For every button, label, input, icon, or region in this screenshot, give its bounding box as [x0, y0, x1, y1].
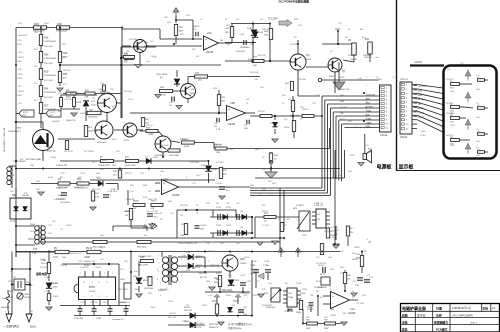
svg-text:R27 462: R27 462 — [216, 162, 224, 164]
svg-text:R18: R18 — [44, 54, 49, 57]
svg-text:R6A 23Ω-7W: R6A 23Ω-7W — [70, 252, 81, 255]
svg-text:LED3: LED3 — [450, 125, 455, 127]
svg-text:D17 4148: D17 4148 — [190, 162, 200, 164]
svg-text:B?D: B?D — [368, 149, 372, 151]
svg-text:RV W: RV W — [86, 247, 93, 250]
svg-text:D50 PB04: D50 PB04 — [144, 288, 154, 290]
svg-text:C79A: C79A — [264, 260, 270, 263]
svg-text:230-7W: 230-7W — [30, 231, 37, 233]
svg-text:R34 100K: R34 100K — [160, 145, 170, 147]
svg-text:1ΩΩ: 1ΩΩ — [294, 19, 298, 21]
svg-text:C43: C43 — [220, 243, 223, 245]
svg-text:1/2W: 1/2W — [17, 44, 22, 46]
svg-text:2: 2 — [176, 283, 177, 285]
svg-text:22ΩΩ: 22ΩΩ — [296, 205, 302, 207]
svg-text:R6A: R6A — [62, 256, 67, 259]
svg-text:LED2: LED2 — [450, 113, 455, 115]
svg-text:200K: 200K — [17, 95, 22, 97]
svg-text:CNR1: CNR1 — [24, 294, 29, 296]
svg-text:VCC: VCC — [460, 63, 465, 65]
svg-text:显示板: 显示板 — [399, 164, 415, 171]
svg-text:RL1 78L05: RL1 78L05 — [328, 227, 339, 229]
svg-text:D19: D19 — [196, 251, 199, 253]
svg-text:VCC: VCC — [338, 23, 343, 25]
svg-text:FR204: FR204 — [194, 267, 201, 269]
svg-text:794-L79Ω%: 794-L79Ω% — [156, 74, 168, 76]
svg-text:1/2W200KΩ: 1/2W200KΩ — [44, 75, 56, 77]
svg-text:原理图编号: 原理图编号 — [434, 320, 448, 324]
svg-text:LED4: LED4 — [450, 145, 455, 147]
svg-text:R42 100K: R42 100K — [290, 115, 300, 117]
svg-text:170Ω-0.7W: 170Ω-0.7W — [56, 165, 68, 167]
svg-text:GND: GND — [366, 126, 371, 128]
svg-text:C42: C42 — [206, 243, 209, 245]
svg-text:JYC-POWER电源电路图: JYC-POWER电源电路图 — [278, 0, 309, 4]
svg-text:C79: C79 — [256, 281, 259, 283]
svg-text:8050: 8050 — [329, 76, 335, 78]
svg-text:D6: D6 — [348, 29, 350, 31]
svg-text:U3A: U3A — [163, 178, 168, 181]
svg-text:R6Ω 4ΩΩ*: R6Ω 4ΩΩ* — [137, 247, 147, 249]
svg-text:~ 230VAC: ~ 230VAC — [3, 325, 20, 329]
svg-text:R7A: R7A — [113, 170, 118, 173]
svg-text:R56 68Ω-VZW: R56 68Ω-VZW — [138, 256, 151, 258]
svg-text:4ΩΩΩ*: 4ΩΩΩ* — [100, 247, 106, 249]
svg-text:5: 5 — [330, 289, 331, 291]
svg-text:8T5Ω-spΩ: 8T5Ω-spΩ — [97, 142, 107, 144]
svg-text:220-7W: 220-7W — [41, 263, 48, 265]
svg-text:BT66: BT66 — [89, 286, 95, 289]
svg-text:B41: B41 — [360, 29, 363, 31]
svg-text:R49: R49 — [130, 185, 133, 187]
svg-text:LM339: LM339 — [172, 194, 180, 197]
svg-text:15A/25ΩV: 15A/25ΩV — [1, 306, 10, 309]
svg-text:1Ω4: 1Ω4 — [272, 183, 276, 185]
svg-text:4.3K: 4.3K — [95, 197, 100, 199]
svg-text:R34 1ΩΩB: R34 1ΩΩB — [169, 155, 179, 157]
svg-text:88L07: 88L07 — [146, 277, 152, 279]
svg-text:C4: C4 — [477, 149, 479, 151]
svg-text:C1: C1 — [477, 77, 479, 79]
svg-text:330R-0.7W: 330R-0.7W — [58, 187, 68, 189]
svg-text:R17: R17 — [34, 100, 37, 102]
svg-text:R16: R16 — [44, 37, 49, 40]
svg-text:4: 4 — [330, 281, 331, 283]
svg-text:1u: 1u — [154, 57, 156, 59]
svg-text:1Ω4: 1Ω4 — [476, 89, 480, 91]
svg-text:U1A: U1A — [330, 308, 335, 311]
svg-text:VCC: VCC — [298, 25, 303, 27]
svg-text:R31: R31 — [246, 99, 249, 101]
svg-text:C4 1u: C4 1u — [128, 99, 133, 101]
svg-text:4ΩΩ7: 4ΩΩ7 — [202, 305, 207, 307]
svg-text:C16: C16 — [150, 41, 153, 43]
svg-text:1ΩΩ: 1ΩΩ — [286, 219, 290, 221]
svg-text:R59: R59 — [324, 317, 327, 319]
svg-text:1: 1 — [366, 77, 367, 79]
svg-text:3: 3 — [366, 93, 367, 95]
svg-text:5B5Ω7/1Ω: 5B5Ω7/1Ω — [46, 151, 56, 153]
svg-text:R16: R16 — [18, 40, 21, 42]
svg-text:CN1-1/2W: CN1-1/2W — [118, 289, 127, 291]
svg-text:R6Ω: R6Ω — [206, 281, 210, 283]
svg-text:ED/94: ED/94 — [184, 307, 190, 309]
svg-text:SW2: SW2 — [418, 90, 424, 92]
svg-text:1C1: 1C1 — [92, 162, 95, 164]
svg-text:200K: 200K — [17, 61, 22, 63]
svg-text:1Ω4: 1Ω4 — [196, 175, 200, 177]
svg-text:22Ω: 22Ω — [316, 95, 320, 97]
svg-text:R30: R30 — [57, 22, 62, 26]
svg-text:N5ΩΩ: N5ΩΩ — [352, 259, 358, 261]
svg-text:C78F: C78F — [252, 261, 258, 263]
svg-text:R37 2W: R37 2W — [84, 151, 91, 153]
svg-text:1Ω4: 1Ω4 — [146, 61, 150, 63]
svg-text:2.2K: 2.2K — [330, 237, 335, 239]
svg-text:R29: R29 — [34, 22, 39, 26]
svg-text:C40 C41: C40 C41 — [154, 213, 163, 215]
svg-text:R31 1K: R31 1K — [125, 173, 132, 175]
svg-text:R50C 1M*: R50C 1M* — [148, 199, 157, 201]
svg-text:170KΩ-1/2W: 170KΩ-1/2W — [124, 165, 136, 167]
svg-text:5ΩHz: 5ΩHz — [30, 326, 37, 329]
svg-text:820K-0.7W: 820K-0.7W — [74, 187, 84, 189]
svg-text:2: 2 — [92, 273, 93, 275]
svg-text:39ΩB: 39ΩB — [184, 146, 190, 148]
svg-text:68Ω-1/2W: 68Ω-1/2W — [138, 265, 149, 267]
svg-text:1/2W-2ΩΩ: 1/2W-2ΩΩ — [88, 117, 98, 119]
svg-text:+: + — [332, 295, 334, 299]
svg-text:C57 1Ω4: C57 1Ω4 — [356, 303, 364, 305]
svg-text:李中天: 李中天 — [417, 313, 426, 317]
svg-text:2: 2 — [208, 261, 209, 263]
svg-text:XS11A: XS11A — [400, 136, 408, 139]
svg-text:22Ω: 22Ω — [354, 127, 358, 129]
svg-text:N2ΩΩ-7W: N2ΩΩ-7W — [192, 327, 201, 329]
svg-text:R34: R34 — [300, 107, 303, 109]
svg-text:C22 472: C22 472 — [66, 92, 73, 94]
svg-text:绘图: 绘图 — [401, 313, 408, 317]
svg-text:R58: R58 — [306, 317, 309, 319]
svg-text:CN5Ω: CN5Ω — [150, 307, 156, 309]
svg-text:D52Ω: D52Ω — [182, 321, 188, 323]
svg-text:VCC: VCC — [233, 300, 238, 303]
svg-text:CTΩ4: CTΩ4 — [96, 318, 102, 320]
svg-text:D21: D21 — [216, 203, 219, 205]
svg-text:R55/C7Ω4: R55/C7Ω4 — [194, 323, 204, 325]
svg-text:C40 C41 472: C40 C41 472 — [146, 211, 159, 213]
svg-text:R19 200K: R19 200K — [44, 80, 54, 82]
svg-text:COM3: COM3 — [420, 131, 425, 133]
svg-text:44Ω: 44Ω — [198, 80, 202, 82]
svg-text:R4Ω 1ΩB: R4Ω 1ΩB — [250, 72, 259, 74]
svg-text:R7P: R7P — [264, 293, 269, 295]
svg-text:Comment 1/2: Comment 1/2 — [112, 318, 125, 321]
svg-text:CΩM2: CΩM2 — [366, 122, 373, 124]
svg-text:B41: B41 — [365, 38, 370, 41]
svg-text:R24 200K: R24 200K — [44, 97, 54, 99]
svg-text:U/C14 104: U/C14 104 — [316, 263, 326, 265]
svg-text:471: 471 — [148, 191, 151, 193]
svg-text:1N4148: 1N4148 — [350, 59, 358, 61]
svg-text:R1C: R1C — [116, 151, 121, 153]
svg-text:L1Ω3: L1Ω3 — [60, 173, 65, 175]
svg-text:1N4ΩΩ7*: 1N4ΩΩ7* — [52, 121, 60, 123]
svg-text:56K*: 56K* — [62, 57, 67, 59]
svg-text:R24: R24 — [44, 88, 49, 91]
svg-text:R22: R22 — [340, 251, 343, 253]
svg-text:VCC: VCC — [213, 88, 218, 90]
svg-text:2: 2 — [366, 85, 367, 87]
svg-text:2N2DN4V: 2N2DN4V — [240, 47, 250, 49]
svg-text:DB1: DB1 — [10, 191, 14, 193]
svg-text:XS11A: XS11A — [380, 134, 388, 137]
svg-text:LM339: LM339 — [330, 315, 337, 317]
svg-text:BUZZ: BUZZ — [340, 119, 346, 121]
svg-text:1AΩ5: 1AΩ5 — [190, 92, 196, 95]
svg-text:电磁炉事业部: 电磁炉事业部 — [402, 305, 426, 311]
svg-text:IC1 BT66: IC1 BT66 — [80, 267, 89, 269]
svg-text:R24: R24 — [18, 103, 21, 105]
svg-text:日期: 日期 — [436, 306, 442, 311]
svg-text:TB102: TB102 — [95, 267, 102, 269]
svg-text:R54: R54 — [258, 195, 261, 197]
svg-text:47u: 47u — [226, 190, 229, 192]
svg-text:10D561: 10D561 — [6, 297, 14, 299]
svg-text:R/6Ω: R/6Ω — [216, 273, 221, 275]
svg-text:TM/A: TM/A — [288, 296, 293, 299]
svg-text:VER. C: VER. C — [470, 323, 478, 325]
svg-text:1/2W: 1/2W — [18, 74, 23, 76]
svg-text:R4 47Ω: R4 47Ω — [446, 135, 453, 137]
svg-text:R2Ω: R2Ω — [164, 17, 168, 19]
svg-text:(Y): (Y) — [392, 77, 395, 79]
svg-text:R NA: R NA — [40, 258, 45, 261]
svg-text:审核: 审核 — [402, 320, 408, 324]
svg-text:C79A: C79A — [263, 264, 269, 267]
svg-text:1ΩB*: 1ΩB* — [342, 313, 347, 315]
svg-text:D5Ω: D5Ω — [148, 293, 152, 295]
svg-text:R19: R19 — [18, 86, 21, 88]
svg-text:R32: R32 — [282, 95, 285, 97]
svg-text:R51: R51 — [180, 215, 183, 217]
svg-text:R35 6ΩV2: R35 6ΩV2 — [64, 151, 73, 153]
svg-text:6: 6 — [186, 177, 187, 179]
svg-text:TM1A: TM1A — [296, 282, 302, 285]
svg-text:1ΩB: 1ΩB — [216, 152, 221, 154]
svg-text:1Ω4: 1Ω4 — [126, 51, 130, 53]
svg-text:(A-C78): (A-C78) — [200, 276, 207, 279]
svg-text:C7C726: C7C726 — [90, 302, 98, 304]
svg-text:2: 2 — [160, 175, 161, 177]
svg-text:C3Ω: C3Ω — [254, 79, 258, 81]
svg-text:4ΩL-1/W: 4ΩL-1/W — [184, 310, 192, 312]
svg-text:R52 4.3K: R52 4.3K — [92, 189, 101, 191]
svg-text:C5ΩA: C5ΩA — [238, 310, 244, 313]
svg-text:R16: R16 — [34, 32, 37, 34]
svg-text:78LΩ5: 78LΩ5 — [324, 231, 330, 233]
svg-text:R32 1K: R32 1K — [288, 99, 295, 101]
svg-text:1M*: 1M* — [125, 215, 129, 217]
svg-text:4Ω4C17: 4Ω4C17 — [193, 26, 201, 28]
svg-text:U/C14: U/C14 — [318, 265, 325, 267]
svg-text:R57: R57 — [316, 291, 319, 293]
svg-text:R19: R19 — [34, 66, 37, 68]
svg-text:56K*: 56K* — [180, 34, 185, 36]
svg-text:R5ΩD: R5ΩD — [302, 289, 308, 291]
svg-text:240KΩ/2W: 240KΩ/2W — [18, 35, 27, 37]
svg-text:C1Ω6: C1Ω6 — [53, 296, 58, 298]
svg-text:(D): (D) — [160, 77, 163, 79]
svg-text:R24: R24 — [34, 83, 37, 85]
svg-text:R7P: R7P — [262, 289, 267, 291]
svg-text:617*: 617* — [63, 84, 67, 86]
svg-text:C7D/C7DA(3Ω)-1/4T: C7D/C7DA(3Ω)-1/4T — [78, 260, 96, 263]
svg-text:4148: 4148 — [258, 32, 264, 34]
svg-text:1ΩΩ: 1ΩΩ — [36, 181, 40, 183]
svg-text:3: 3 — [160, 295, 161, 297]
svg-text:1/2W200KΩ: 1/2W200KΩ — [44, 92, 56, 94]
svg-text:R50B: R50B — [124, 211, 130, 213]
svg-text:N2ΩΩ-7W: N2ΩΩ-7W — [209, 327, 218, 329]
svg-text:7ΩΩ: 7ΩΩ — [110, 89, 114, 91]
svg-text:R34 1K: R34 1K — [302, 109, 309, 111]
svg-text:1N2DN4: 1N2DN4 — [364, 57, 373, 59]
svg-text:C3: C3 — [477, 131, 479, 133]
svg-text:56K*: 56K* — [179, 31, 184, 33]
svg-text:4: 4 — [366, 101, 367, 103]
svg-text:R43: R43 — [348, 121, 351, 123]
svg-text:C2: C2 — [477, 105, 479, 107]
svg-text:B06-W19: B06-W19 — [160, 289, 169, 291]
svg-text:12: 12 — [344, 287, 346, 289]
svg-text:1/2W: 1/2W — [24, 117, 29, 119]
svg-text:R53 1K: R53 1K — [262, 211, 269, 213]
svg-text:4007*: 4007* — [49, 115, 54, 117]
svg-text:76C: 76C — [347, 279, 351, 281]
svg-text:CT1: CT1 — [33, 248, 38, 251]
svg-text:7EN9-7BΩN: 7EN9-7BΩN — [222, 291, 234, 293]
svg-text:AD/KEY: AD/KEY — [366, 105, 374, 108]
svg-text:472: 472 — [160, 219, 163, 221]
svg-text:+: + — [228, 108, 230, 112]
svg-text:C45: C45 — [262, 189, 265, 191]
svg-text:R47: R47 — [338, 175, 341, 177]
svg-text:R17: R17 — [44, 105, 49, 108]
svg-text:1Ω4: 1Ω4 — [328, 257, 332, 259]
svg-text:CNR1: CNR1 — [8, 291, 14, 293]
svg-text:+C51: +C51 — [208, 295, 213, 297]
svg-text:1/2W: 1/2W — [18, 52, 23, 54]
svg-text:3K9: 3K9 — [236, 19, 239, 21]
svg-text:LM339: LM339 — [348, 312, 356, 315]
svg-text:4: 4 — [112, 273, 113, 275]
svg-text:R42: R42 — [284, 119, 287, 121]
svg-text:1/2W200KΩ: 1/2W200KΩ — [44, 58, 56, 60]
svg-text:页码: 页码 — [482, 307, 489, 311]
svg-text:R23: R23 — [63, 52, 68, 55]
svg-text:VAD: VAD — [340, 112, 345, 115]
svg-text:10K: 10K — [253, 65, 257, 67]
svg-text:100Ω/23Ω: 100Ω/23Ω — [314, 287, 324, 289]
svg-text:R19: R19 — [44, 71, 49, 74]
svg-text:12N60: 12N60 — [240, 263, 247, 265]
svg-text:400Ω: 400Ω — [53, 257, 59, 259]
svg-text:1ΩΩΩ: 1ΩΩΩ — [134, 289, 140, 291]
svg-text:R46 39K: R46 39K — [262, 29, 270, 31]
svg-text:4Ω7Ω: 4Ω7Ω — [98, 89, 104, 91]
svg-text:R7: R7 — [225, 19, 227, 21]
svg-text:1: 1 — [80, 273, 81, 275]
svg-text:2N2DN4V: 2N2DN4V — [236, 51, 246, 53]
svg-text:(3Ω)/2P: (3Ω)/2P — [250, 273, 258, 275]
svg-text:SW1: SW1 — [418, 95, 424, 97]
svg-text:1999年09月13日: 1999年09月13日 — [452, 306, 472, 310]
svg-text:RV W: RV W — [84, 257, 89, 259]
svg-text:102-1000V: 102-1000V — [60, 202, 70, 204]
svg-text:BC17: BC17 — [320, 274, 326, 276]
svg-text:56K*: 56K* — [186, 15, 190, 17]
svg-text:1N4148: 1N4148 — [80, 113, 88, 115]
svg-text:2W: 2W — [85, 97, 88, 99]
svg-text:1ΩΩΩ: 1ΩΩΩ — [66, 225, 72, 227]
svg-text:R24: R24 — [63, 73, 68, 76]
svg-text:R26 10K: R26 10K — [124, 91, 132, 93]
svg-text:5ΩΩ*: 5ΩΩ* — [302, 235, 307, 237]
svg-text:C2Ω: C2Ω — [100, 169, 104, 171]
svg-text:电源板: 电源板 — [377, 164, 393, 171]
svg-text:1/2DF/B05(1*): 1/2DF/B05(1*) — [8, 131, 21, 133]
svg-text:8550: 8550 — [306, 59, 312, 61]
svg-text:C78F: C78F — [250, 265, 256, 267]
svg-text:240K: 240K — [44, 23, 49, 25]
svg-text:R12 46B: R12 46B — [298, 79, 306, 81]
svg-text:1Ω4: 1Ω4 — [476, 117, 480, 119]
svg-text:13: 13 — [352, 291, 354, 293]
svg-text:ZD49: ZD49 — [230, 285, 235, 287]
svg-text:BUZ1: BUZ1 — [350, 155, 355, 157]
svg-text:1/2W200KΩ: 1/2W200KΩ — [44, 41, 56, 43]
svg-text:C7 1Ω4: C7 1Ω4 — [262, 225, 268, 227]
svg-text:R30 467: R30 467 — [214, 144, 222, 146]
svg-text:D51: D51 — [186, 305, 189, 307]
svg-text:POT1: POT1 — [23, 112, 29, 114]
svg-text:LM339: LM339 — [206, 52, 214, 54]
svg-text:R25 1W: R25 1W — [63, 70, 70, 72]
svg-text:U4: U4 — [316, 203, 318, 205]
svg-text:6: 6 — [366, 117, 367, 119]
svg-text:15ΩB: 15ΩB — [76, 102, 82, 104]
svg-text:C5Ω C1: C5Ω C1 — [306, 307, 314, 309]
svg-text:LM339: LM339 — [228, 124, 236, 126]
svg-text:1ΩΩK: 1ΩΩK — [284, 127, 290, 129]
svg-text:R6Ω: R6Ω — [100, 235, 104, 237]
svg-text:U3B: U3B — [230, 102, 235, 105]
svg-text:22Ω: 22Ω — [124, 261, 128, 263]
svg-text:ZD2 6V2: ZD2 6V2 — [270, 123, 279, 125]
svg-text:4148: 4148 — [212, 169, 218, 171]
svg-text:Comment 1/2: Comment 1/2 — [118, 301, 131, 304]
svg-text:39K: 39K — [264, 35, 268, 37]
svg-text:LED1: LED1 — [450, 91, 455, 93]
svg-text:(3Ω)/2P: (3Ω)/2P — [250, 269, 258, 271]
svg-text:C11: C11 — [60, 229, 63, 231]
svg-text:1ΩΩu: 1ΩΩu — [226, 295, 231, 297]
svg-text:C41: C41 — [170, 213, 173, 215]
svg-text:D NA: D NA — [44, 276, 49, 279]
svg-text:7N50 D48: 7N50 D48 — [210, 265, 220, 267]
svg-text:220-7W: 220-7W — [40, 267, 47, 269]
